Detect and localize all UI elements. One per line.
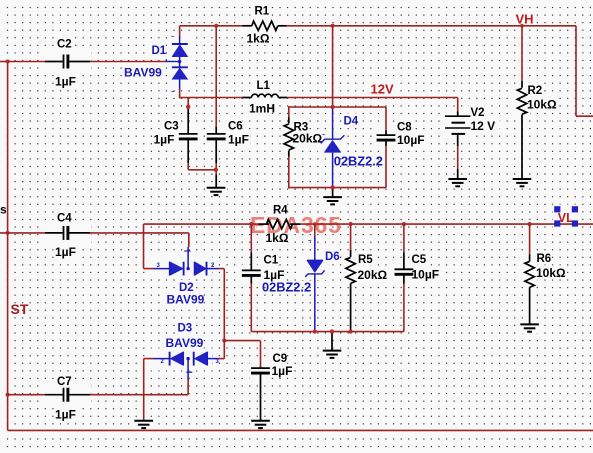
- capacitor C2: [45, 55, 90, 69]
- junction rail-box branch: [331, 24, 335, 28]
- wire C1 branch: [250, 224, 252, 270]
- junction rail-R6: [528, 222, 532, 226]
- wire to C9: [224, 341, 260, 367]
- junction rail-C5: [402, 222, 406, 226]
- resistor R4: [259, 219, 301, 228]
- svg-text:D6: D6: [325, 251, 340, 263]
- capacitor C9: [251, 367, 270, 421]
- ground R2: [513, 179, 532, 186]
- svg-text:R6: R6: [537, 253, 552, 265]
- svg-text:R2: R2: [528, 85, 543, 97]
- svg-text:02BZ2.2: 02BZ2.2: [262, 280, 311, 295]
- wire bottom rail (y=430.4): [8, 429, 593, 431]
- svg-text:R1: R1: [255, 5, 270, 17]
- value C9 1uF: [272, 364, 293, 378]
- wire right drop to edge: [576, 26, 593, 116]
- junction box bottom: [331, 186, 335, 190]
- value C2 1uF: [55, 75, 76, 89]
- wire C7 to D3 middle: [90, 394, 188, 396]
- label C3: [164, 121, 179, 133]
- svg-text:1mH: 1mH: [249, 102, 275, 116]
- wire C2 input segment: [8, 61, 45, 63]
- selection handles VL: [554, 206, 578, 226]
- svg-text:~: ~: [308, 239, 312, 245]
- svg-text:20kΩ: 20kΩ: [293, 132, 323, 146]
- svg-text:R4: R4: [273, 205, 288, 217]
- label R5: [358, 254, 373, 266]
- svg-text:BAV99: BAV99: [167, 293, 205, 307]
- label C9: [273, 353, 288, 365]
- value C3 1uF: [154, 133, 175, 147]
- ground C9: [251, 421, 270, 428]
- label D6: [325, 251, 340, 263]
- value L1 1mH: [249, 102, 275, 116]
- junction C3C6-gnd: [214, 168, 218, 172]
- zener diode D4: [321, 105, 345, 188]
- wire VL rail (y=224.1): [144, 223, 593, 225]
- capacitor C5: [395, 253, 414, 284]
- svg-text:C6: C6: [228, 121, 243, 133]
- value D4 02BZ2.2: [334, 153, 383, 168]
- wire stub left edge to bus (y=61.5): [0, 61, 9, 63]
- label D1: [152, 45, 167, 57]
- capacitor C3: [179, 105, 198, 170]
- label C2: [57, 39, 72, 51]
- label C6: [228, 121, 243, 133]
- junction s-C2: [6, 59, 10, 63]
- wire box to ground: [332, 188, 334, 198]
- label R6: [537, 253, 552, 265]
- inductor L1: [243, 94, 288, 97]
- wire D3 left to ground: [143, 359, 145, 421]
- value R4 1k: [266, 231, 289, 245]
- resistor R6: [525, 255, 534, 325]
- svg-text:EDA365: EDA365: [250, 212, 342, 238]
- svg-text:R5: R5: [358, 254, 373, 266]
- ground V2: [448, 179, 467, 186]
- value R3 20k: [293, 132, 323, 146]
- svg-text:10kΩ: 10kΩ: [536, 266, 566, 280]
- svg-text:C5: C5: [412, 254, 427, 266]
- pin mark D4: [322, 133, 326, 139]
- label V2: [471, 107, 485, 119]
- svg-text:10kΩ: 10kΩ: [527, 97, 557, 111]
- label 12V: [371, 81, 394, 96]
- value R1 1k: [247, 32, 270, 46]
- svg-text:~: ~: [322, 133, 326, 139]
- svg-text:VH: VH: [516, 11, 534, 26]
- value R2 10k: [527, 97, 557, 111]
- wire input bus vertical (node s): [7, 62, 9, 431]
- wire rail to clamp box: [332, 26, 334, 107]
- value D1 BAV99: [124, 66, 162, 80]
- svg-text:1kΩ: 1kΩ: [247, 32, 270, 46]
- diode D3 (BAV99 dual): [154, 352, 219, 380]
- label R4: [273, 205, 288, 217]
- value D6 02BZ2.2: [262, 280, 311, 295]
- label R3: [294, 122, 309, 134]
- capacitor C7: [45, 388, 90, 402]
- svg-text:02BZ2.2: 02BZ2.2: [334, 153, 383, 168]
- wire C7 segment: [8, 394, 45, 396]
- wire 12V to V2: [457, 98, 459, 112]
- svg-text:1µF: 1µF: [55, 75, 76, 89]
- svg-text:~: ~: [171, 90, 175, 96]
- node label s: [0, 203, 7, 217]
- svg-text:D3: D3: [178, 323, 193, 335]
- label C4: [57, 213, 72, 225]
- capacitor C6: [207, 127, 226, 170]
- svg-text:V2: V2: [471, 107, 485, 119]
- junction rail-D6: [313, 222, 317, 226]
- wire rail to R5: [350, 224, 352, 250]
- pin mark D3 right: [216, 359, 220, 365]
- svg-text:C9: C9: [273, 353, 288, 365]
- wire 12V to C3 pin: [187, 98, 189, 107]
- svg-text:is: is: [0, 203, 7, 217]
- diode D1 (BAV99 dual): [172, 26, 188, 99]
- wire top rail VH (y=25.8): [180, 25, 576, 27]
- value C4 1uF: [55, 245, 76, 259]
- value C1 1uF: [264, 268, 285, 282]
- battery V2: [445, 112, 470, 147]
- wire rail to R2: [521, 26, 523, 81]
- wire D2 right lead: [219, 269, 225, 341]
- svg-text:ST: ST: [11, 301, 29, 317]
- junction rail-C1: [249, 222, 253, 226]
- capacitor C1: [242, 270, 261, 283]
- value R6 10k: [536, 266, 566, 280]
- watermark EDA365: [250, 212, 342, 238]
- ground clamp box: [323, 186, 342, 205]
- value D2 BAV99: [167, 293, 205, 307]
- diode D2 (BAV99 dual): [154, 262, 219, 276]
- capacitor C4: [45, 226, 90, 240]
- value C7 1uF: [55, 408, 76, 422]
- svg-text:1µF: 1µF: [55, 245, 76, 259]
- wire D2 left lead: [144, 268, 154, 270]
- pin mark D1 bottom: [171, 90, 175, 96]
- svg-text:D1: D1: [152, 45, 167, 57]
- label R1: [255, 5, 270, 17]
- resistor R3: [284, 118, 293, 157]
- zener diode D6: [305, 224, 324, 332]
- junction s-C7: [6, 393, 10, 397]
- svg-text:20kΩ: 20kΩ: [358, 268, 388, 282]
- value C5 10uF: [412, 268, 440, 282]
- label C1: [264, 254, 279, 266]
- junction box-R5: [349, 330, 353, 334]
- wire C4 to D2: [90, 233, 189, 247]
- pin D2 middle: [184, 247, 190, 269]
- ground C3C6: [207, 188, 226, 195]
- svg-text:1µF: 1µF: [154, 133, 175, 147]
- label C8: [397, 122, 412, 134]
- junction rail-R2 branch: [520, 24, 524, 28]
- junction rail-R5: [349, 222, 353, 226]
- value C6 1uF: [228, 133, 249, 147]
- wire to ground: [214, 168, 218, 188]
- label VL: [558, 211, 574, 225]
- svg-text:10µF: 10µF: [397, 133, 425, 147]
- wire box to ground: [331, 332, 333, 351]
- wire rail to C6: [215, 26, 217, 127]
- resistor R1: [243, 21, 287, 30]
- svg-text:C8: C8: [397, 122, 412, 134]
- svg-text:1kΩ: 1kΩ: [266, 231, 289, 245]
- label D2: [179, 282, 194, 294]
- svg-text:C1: C1: [264, 254, 279, 266]
- wire lower box left+bottom+right: [251, 224, 404, 332]
- resistor R2: [517, 81, 526, 179]
- label L1: [257, 80, 271, 92]
- wire rail down to D2 left: [143, 224, 145, 269]
- junction box-D6: [313, 330, 317, 334]
- svg-text:C4: C4: [57, 213, 72, 225]
- wire C2 to D1 pin: [90, 59, 180, 62]
- svg-text:L1: L1: [257, 80, 271, 92]
- svg-text:BAV99: BAV99: [166, 336, 204, 350]
- svg-text:BAV99: BAV99: [124, 66, 162, 80]
- svg-text:C2: C2: [57, 39, 72, 51]
- junction rail-C6 branch: [214, 24, 218, 28]
- label VH: [516, 11, 534, 26]
- capacitor C8: [377, 107, 396, 188]
- svg-text:1µF: 1µF: [55, 408, 76, 422]
- pin mark D3 left: [161, 359, 165, 365]
- wire 12V rail (y=97.5): [180, 97, 458, 99]
- junction box-gnd: [330, 330, 334, 334]
- svg-text:~: ~: [171, 35, 175, 41]
- svg-text:D4: D4: [344, 116, 359, 128]
- label D3: [178, 323, 193, 335]
- svg-text:10µF: 10µF: [412, 268, 440, 282]
- pin mark D2 left: [157, 263, 161, 269]
- wire D3 right lead: [219, 341, 225, 359]
- wire D3 left lead: [144, 358, 154, 360]
- pin mark D1 top: [171, 35, 175, 41]
- label R2: [528, 85, 543, 97]
- pin mark D6: [308, 239, 312, 245]
- value C8 10uF: [397, 133, 425, 147]
- wire V2 to ground: [457, 146, 459, 179]
- wire clamp box outline: [289, 106, 386, 188]
- label ST: [11, 301, 29, 317]
- wire C3-C6 bottom: [188, 169, 216, 171]
- ground D3: [134, 421, 153, 428]
- value R5 20k: [358, 268, 388, 282]
- svg-text:C7: C7: [57, 376, 72, 388]
- label C5: [412, 254, 427, 266]
- junction s-C4: [6, 231, 10, 235]
- value V2 12 V: [471, 119, 496, 133]
- junction box top: [331, 105, 335, 109]
- wire left edge C4 segment: [0, 232, 45, 234]
- svg-text:1µF: 1µF: [272, 364, 293, 378]
- pin mark D2 right: [211, 263, 215, 269]
- svg-text:12V: 12V: [371, 81, 394, 96]
- label C7: [57, 376, 72, 388]
- wire D3 middle to ST wire: [187, 380, 189, 395]
- svg-text:C3: C3: [164, 121, 179, 133]
- label D4: [344, 116, 359, 128]
- svg-text:12 V: 12 V: [471, 119, 496, 133]
- value D3 BAV99: [166, 336, 204, 350]
- junction D2D3-C9: [222, 339, 226, 343]
- resistor R5: [346, 250, 355, 332]
- ground R6: [520, 324, 539, 331]
- svg-text:1µF: 1µF: [228, 133, 249, 147]
- ground lower box: [323, 330, 342, 358]
- junction C3 pin: [186, 105, 190, 109]
- wire rail to R6: [529, 224, 531, 254]
